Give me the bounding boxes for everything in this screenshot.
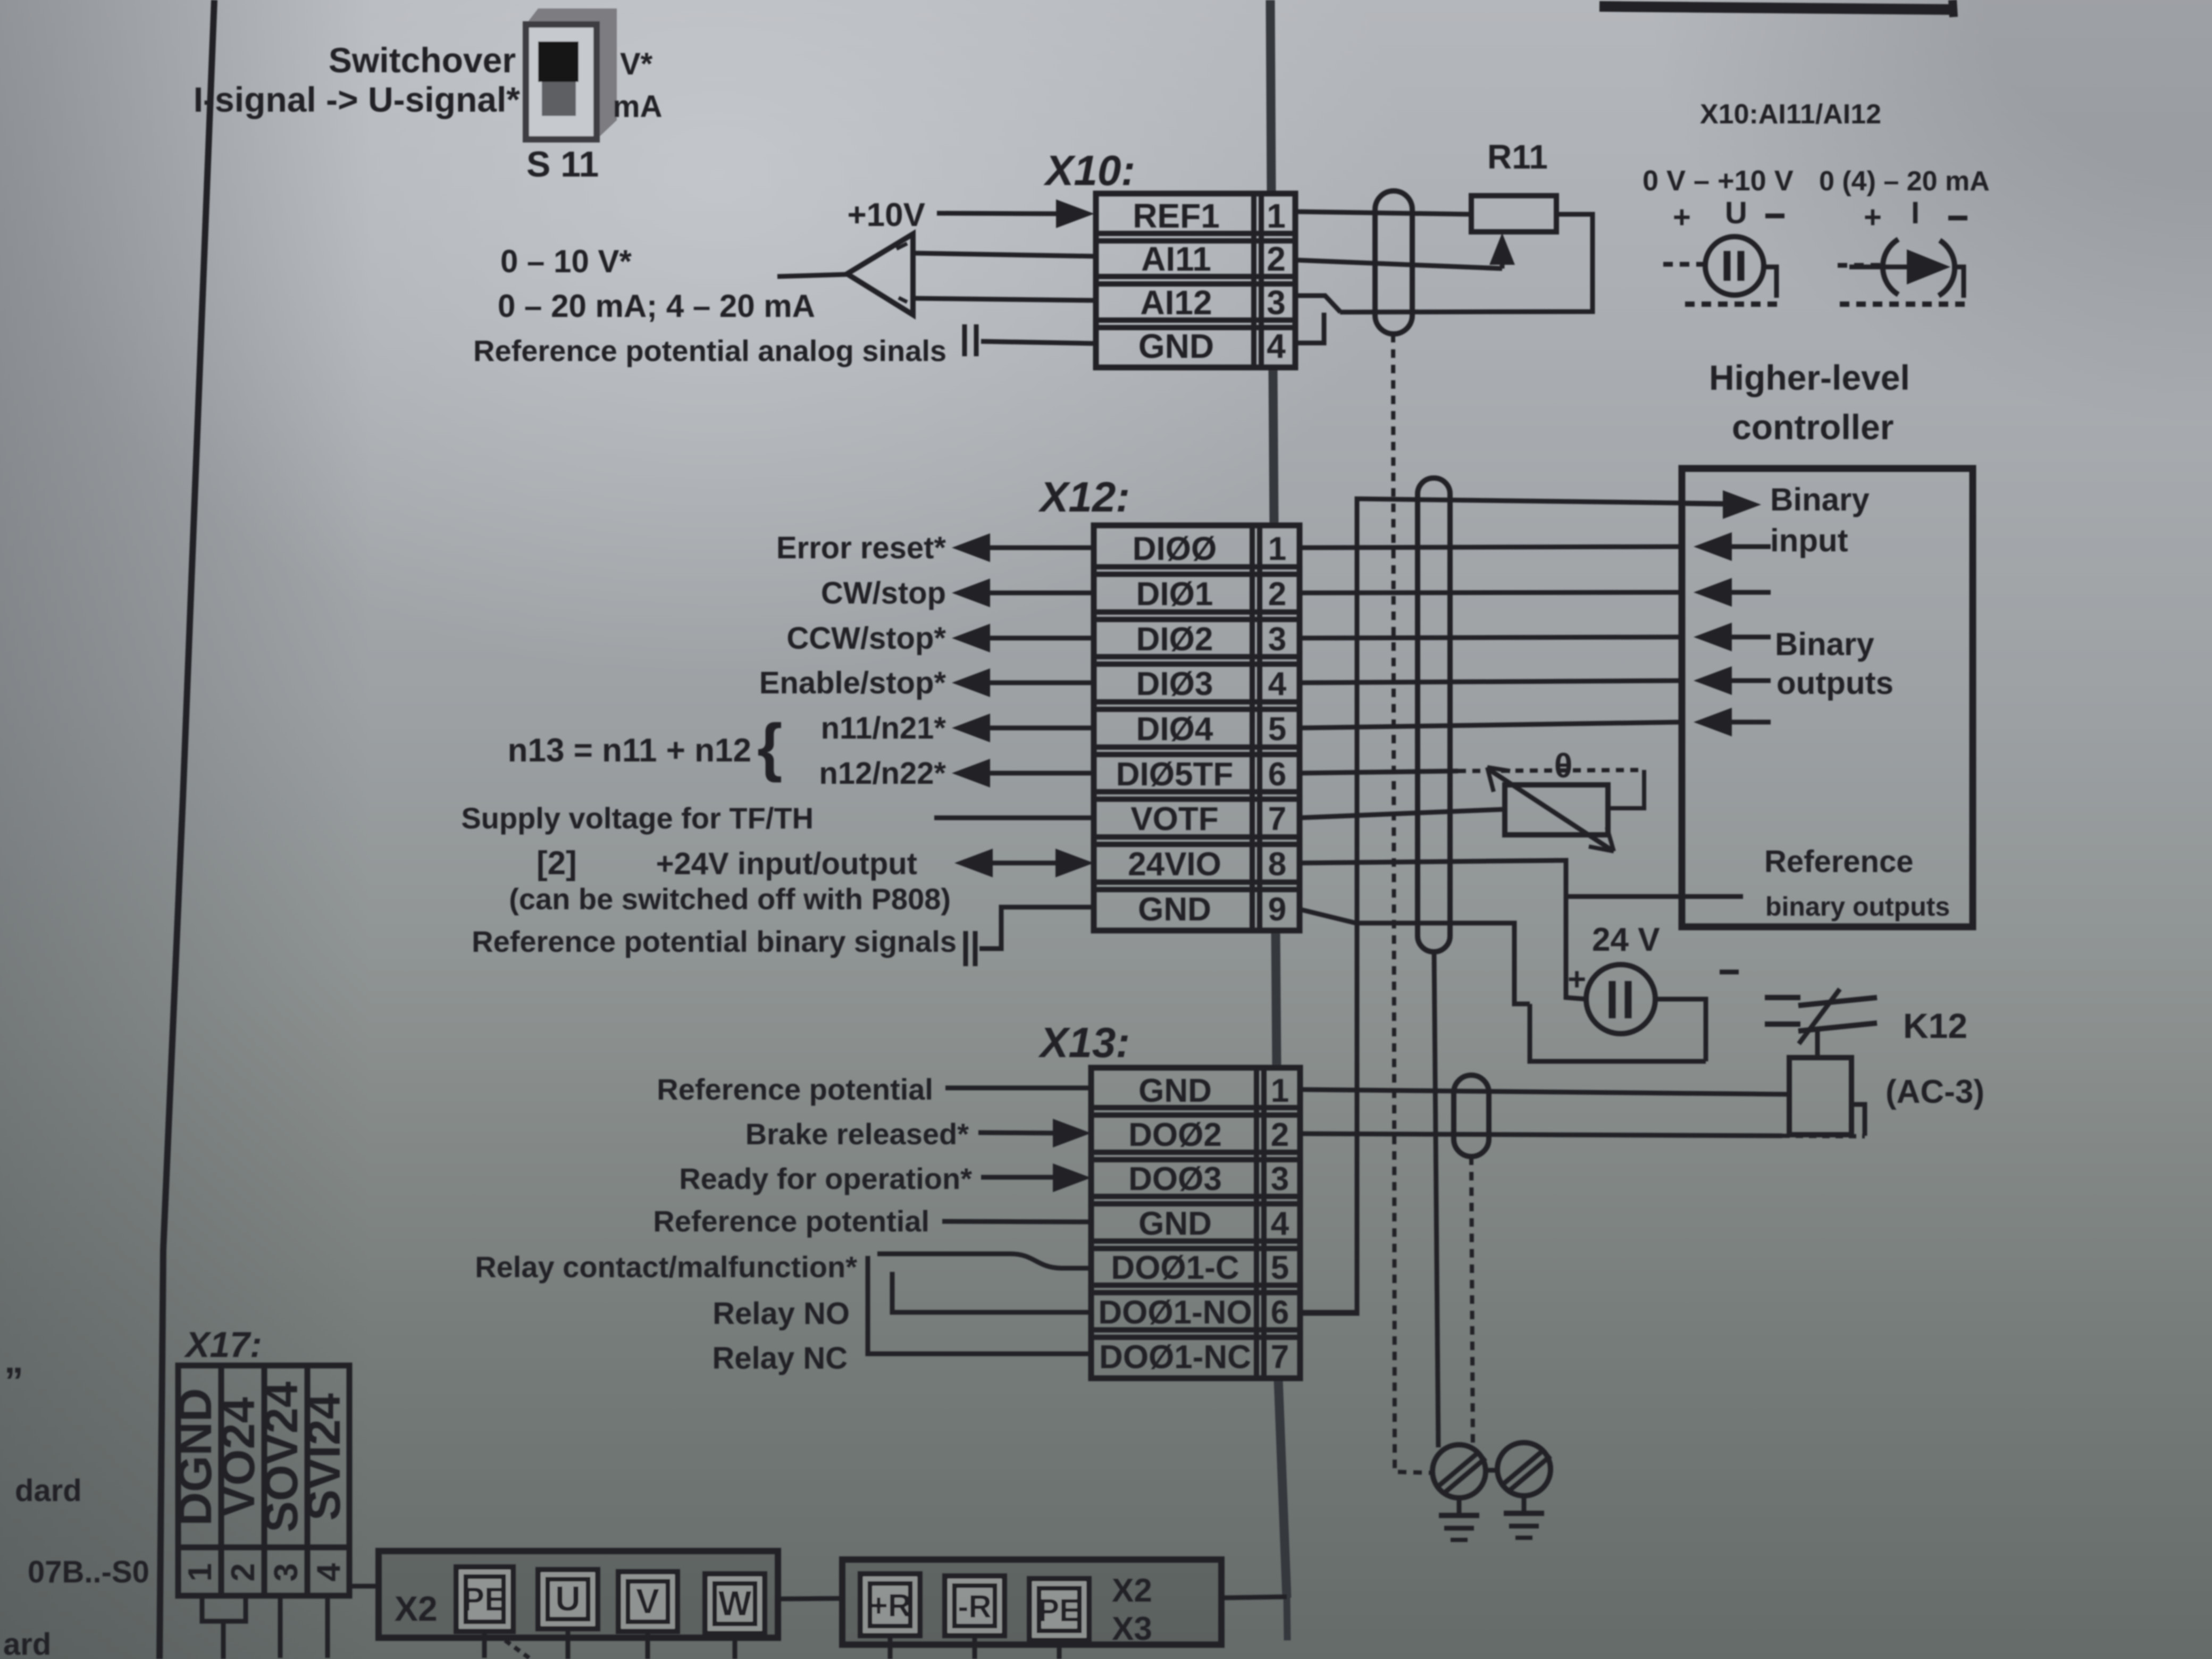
terminal U xyxy=(538,1570,598,1629)
svg-text:Reference: Reference xyxy=(1764,844,1913,879)
svg-text:ard: ard xyxy=(3,1627,51,1659)
reference potential double-bar symbol xyxy=(965,324,976,356)
X17 lower bracket wires xyxy=(202,1596,328,1659)
svg-text:GND: GND xyxy=(1138,891,1211,928)
svg-text:AI12: AI12 xyxy=(1140,283,1212,322)
wire X10:3 jog xyxy=(1295,296,1340,312)
svg-text:+: + xyxy=(1568,961,1586,997)
connector X10 title xyxy=(1043,147,1135,194)
binary output arrow 3 xyxy=(1694,623,1771,651)
svg-text:8: 8 xyxy=(1268,846,1286,883)
svg-text:7: 7 xyxy=(1268,801,1286,837)
X12 terminal 24VIO pin 8 xyxy=(1128,846,1286,883)
svg-text:mA: mA xyxy=(613,89,662,124)
arrow to Enable/stop* xyxy=(952,668,1094,697)
svg-text:Reference potential: Reference potential xyxy=(657,1073,933,1106)
label X10:AI11/AI12 xyxy=(1700,99,1881,130)
Binary input arrow xyxy=(1686,490,1761,519)
svg-text:3: 3 xyxy=(1267,283,1286,322)
24V source circle xyxy=(1586,965,1655,1034)
wire relay common to X13:5 xyxy=(877,1254,1091,1268)
partial text 07B..-S0 xyxy=(28,1555,149,1589)
svg-text:3: 3 xyxy=(1271,1161,1289,1197)
wire X17 to X2 strip xyxy=(349,1584,379,1589)
shielded cable symbol (relay pair) xyxy=(1454,1075,1489,1157)
X12 terminal VOTF pin 7 xyxy=(1130,801,1286,837)
svg-text:DOØ1-C: DOØ1-C xyxy=(1111,1250,1239,1286)
wire VOTF plain xyxy=(934,816,1094,820)
svg-text:Ready for operation*: Ready for operation* xyxy=(679,1162,972,1195)
label 0 - 10 V* xyxy=(500,244,632,279)
svg-text:DIØ2: DIØ2 xyxy=(1136,621,1213,658)
label (AC-3) xyxy=(1886,1074,1984,1110)
wire X12:9 GND to 24V loop xyxy=(1300,909,1530,1004)
svg-text:24 V: 24 V xyxy=(1592,921,1660,958)
X10 terminal AI11 pin 2 xyxy=(1141,240,1286,278)
svg-text:0 – 20 mA; 4 – 20 mA: 0 – 20 mA; 4 – 20 mA xyxy=(498,288,815,324)
double arrow 24VIO xyxy=(954,849,1094,877)
svg-text:R11: R11 xyxy=(1487,138,1548,176)
thermistor TF symbol xyxy=(1505,785,1608,835)
svg-text:X10:AI11/AI12: X10:AI11/AI12 xyxy=(1700,99,1881,130)
binary output arrow 4 xyxy=(1694,666,1771,695)
shielded cable symbol (analog) xyxy=(1375,191,1412,334)
thermistor diagonal arrow xyxy=(1487,767,1614,851)
terminal V xyxy=(618,1572,677,1631)
svg-text:1: 1 xyxy=(1268,531,1286,567)
svg-text:+R: +R xyxy=(869,1588,911,1623)
label Reference potential binary signals xyxy=(472,925,957,958)
X12 terminal GND pin 9 xyxy=(1138,891,1286,928)
svg-text:2: 2 xyxy=(225,1563,262,1581)
svg-text:PE: PE xyxy=(463,1581,507,1618)
svg-text:(can be switched off with P808: (can be switched off with P808) xyxy=(509,882,951,916)
reference potential binary double-bar xyxy=(966,931,975,966)
svg-text:Binary: Binary xyxy=(1770,482,1870,517)
svg-text:Enable/stop*: Enable/stop* xyxy=(759,666,946,700)
vertical wire binary input / relay NO xyxy=(1300,499,1723,1313)
wire X10:2 to R11 wiper xyxy=(1295,260,1502,269)
wire amplifier to AI11 xyxy=(913,253,1096,256)
svg-text:X13:: X13: xyxy=(1038,1019,1130,1066)
X12 terminal DIØ4 pin 5 xyxy=(1136,711,1287,748)
svg-text:9: 9 xyxy=(1268,891,1286,928)
wire X13:1 left xyxy=(945,1086,1091,1091)
GND X12:9 wire to double-bar xyxy=(979,907,1094,949)
svg-text:DIØ3: DIØ3 xyxy=(1136,666,1213,702)
arrow Brake released to X13:2 xyxy=(978,1119,1091,1147)
main unit boundary vertical line xyxy=(1270,0,1287,1640)
svg-text:0 V – +10 V: 0 V – +10 V xyxy=(1643,165,1794,197)
label Switchover xyxy=(329,40,516,80)
label [2] +24V input/output xyxy=(537,845,917,882)
X10 terminal GND pin 4 xyxy=(1138,327,1286,365)
X10 terminal AI12 pin 3 xyxy=(1140,283,1285,322)
label Relay contact/malfunction* xyxy=(475,1250,857,1284)
X13 terminal DOØ1-NC pin 7 xyxy=(1099,1339,1289,1376)
svg-text:3: 3 xyxy=(268,1563,305,1581)
svg-text:5: 5 xyxy=(1271,1250,1289,1286)
X13 terminal GND pin 4 xyxy=(1138,1205,1289,1242)
arrow to n12/n22* xyxy=(952,759,1094,787)
partial text quote mark xyxy=(4,1360,23,1403)
coil right bracket xyxy=(1851,1104,1865,1136)
svg-text:24VIO: 24VIO xyxy=(1128,846,1221,883)
earth ground symbol left xyxy=(1439,1498,1479,1540)
label Brake released* xyxy=(745,1117,969,1151)
label Higher-level xyxy=(1709,358,1910,397)
svg-text:V: V xyxy=(636,1581,659,1621)
wire between strips xyxy=(778,1598,842,1599)
svg-text:X12:: X12: xyxy=(1038,473,1130,521)
arrow to n11/n21* xyxy=(952,714,1094,742)
svg-text:Higher-level: Higher-level xyxy=(1709,358,1910,397)
svg-text:4: 4 xyxy=(1271,1205,1289,1242)
shield drain (binary) to ground screw xyxy=(1434,952,1438,1447)
svg-text:PE: PE xyxy=(1038,1593,1080,1628)
svg-text:DOØ3: DOØ3 xyxy=(1128,1161,1222,1197)
svg-text:Relay NC: Relay NC xyxy=(712,1341,848,1376)
wire X12:6 DIO5TF solid part xyxy=(1300,771,1458,773)
wire X12:4 to controller xyxy=(1300,681,1682,683)
svg-text:GND: GND xyxy=(1138,327,1214,365)
partial text ard xyxy=(3,1627,51,1659)
arrow to CW/stop xyxy=(952,579,1094,607)
label 0 (4) - 20 mA xyxy=(1819,166,1990,197)
label Binary outputs xyxy=(1775,626,1893,701)
label (can be switched off with P808) xyxy=(509,882,951,916)
svg-text:(AC-3): (AC-3) xyxy=(1886,1074,1984,1110)
label 0 - 20 mA; 4 - 20 mA xyxy=(498,288,815,324)
top-right box bottom edge (cut off) xyxy=(1599,0,1954,17)
wire strip2 to main boundary xyxy=(1221,1597,1287,1598)
svg-text:GND: GND xyxy=(1138,1205,1212,1242)
svg-text:07B..-S0: 07B..-S0 xyxy=(28,1555,149,1589)
svg-text:DIØ5TF: DIØ5TF xyxy=(1116,756,1233,793)
svg-text:θ: θ xyxy=(1554,747,1573,785)
wire X12:7 VOTF to thermistor xyxy=(1300,809,1505,818)
wire X12:3 to controller xyxy=(1300,637,1682,638)
X13 terminal GND pin 1 xyxy=(1138,1073,1289,1109)
higher-level controller box xyxy=(1682,468,1973,927)
svg-text:binary outputs: binary outputs xyxy=(1765,892,1950,921)
svg-text:DOØ1-NC: DOØ1-NC xyxy=(1099,1339,1251,1376)
switch S11 knob (V position, black) xyxy=(538,41,579,82)
label Relay NC xyxy=(712,1341,848,1376)
binary output arrow 1 xyxy=(1694,532,1771,561)
svg-text:-R: -R xyxy=(958,1589,991,1624)
svg-text:1: 1 xyxy=(1267,197,1286,235)
svg-text:AI11: AI11 xyxy=(1141,240,1211,278)
svg-text:+10V: +10V xyxy=(847,197,925,233)
svg-text:Switchover: Switchover xyxy=(329,40,516,80)
label Enable/stop* with arrow xyxy=(759,666,946,700)
terminal block X17 xyxy=(178,1365,349,1596)
svg-text:Relay NO: Relay NO xyxy=(713,1296,850,1331)
svg-text:VOTF: VOTF xyxy=(1130,801,1218,837)
svg-text:controller: controller xyxy=(1732,407,1893,447)
svg-text:I: I xyxy=(1911,196,1920,230)
label V* xyxy=(620,47,653,81)
wire X12:8 24VIO to controller reference xyxy=(1300,860,1686,896)
earth ground symbol right xyxy=(1504,1496,1544,1538)
svg-text:2: 2 xyxy=(1271,1117,1289,1153)
svg-text:4: 4 xyxy=(1268,666,1287,702)
svg-text:Binary: Binary xyxy=(1775,626,1874,662)
svg-text:DIØ1: DIØ1 xyxy=(1136,576,1213,613)
svg-text:DIØ4: DIØ4 xyxy=(1136,711,1213,748)
svg-text:Reference potential analog sin: Reference potential analog sinals xyxy=(473,334,946,367)
svg-text:DOØ2: DOØ2 xyxy=(1128,1117,1222,1153)
contactor K12 contact symbol xyxy=(1765,989,1877,1058)
X13 terminal DOØ1-C pin 5 xyxy=(1111,1250,1289,1286)
terminal W xyxy=(705,1574,765,1633)
wire R11 right terminal loop to X10:3/4 xyxy=(1340,214,1593,312)
terminal +R xyxy=(860,1574,920,1636)
potentiometer R11 xyxy=(1471,196,1556,232)
label n11/n21* with arrow xyxy=(821,711,946,745)
X17 terminal SVI24 pin 4 xyxy=(297,1393,350,1581)
svg-text:3: 3 xyxy=(1268,621,1286,658)
contactor K12 coil xyxy=(1789,1058,1851,1135)
svg-text:4: 4 xyxy=(311,1563,347,1581)
label 24 V xyxy=(1592,921,1660,958)
label Reference binary outputs xyxy=(1764,844,1950,921)
screw terminal right xyxy=(1497,1443,1551,1496)
svg-text:CW/stop: CW/stop xyxy=(821,576,946,610)
svg-text:Relay contact/malfunction*: Relay contact/malfunction* xyxy=(475,1250,857,1284)
partial text dard xyxy=(15,1473,82,1508)
svg-text:U: U xyxy=(1725,196,1747,230)
label Ready for operation* xyxy=(679,1162,972,1195)
svg-text:[2]: [2] xyxy=(537,845,577,882)
X13 terminal DOØ1-NO pin 6 xyxy=(1098,1294,1289,1331)
24V right lead xyxy=(1655,999,1706,1061)
terminal block X13 xyxy=(1091,1068,1300,1378)
svg-text:+: + xyxy=(1673,200,1691,234)
X12 terminal DIØ5TF pin 6 xyxy=(1116,756,1286,793)
label controller xyxy=(1732,407,1893,447)
svg-text:GND: GND xyxy=(1138,1073,1212,1109)
svg-text:Error reset*: Error reset* xyxy=(776,531,946,565)
svg-text:X3: X3 xyxy=(1112,1611,1152,1647)
wire X10:1 to potentiometer R11 xyxy=(1295,212,1471,214)
svg-text:4: 4 xyxy=(1267,327,1286,365)
X13 terminal DOØ3 pin 3 xyxy=(1128,1161,1289,1197)
arrow Ready for operation to X13:3 xyxy=(981,1163,1091,1192)
label I-signal -> U-signal* xyxy=(194,80,521,119)
label theta xyxy=(1554,747,1573,785)
power strip X2/X3 (+R -R PE) xyxy=(842,1560,1221,1645)
terminal block X12 xyxy=(1094,525,1300,931)
label Reference potential analog sinals xyxy=(473,334,946,367)
connector X12 title xyxy=(1038,473,1130,521)
R11 wiper arrow xyxy=(1489,233,1515,269)
shield drain dashed line down to ground screw xyxy=(1393,334,1432,1473)
svg-text:V*: V* xyxy=(620,47,653,81)
connector between screws xyxy=(1486,1468,1498,1473)
svg-text:dard: dard xyxy=(15,1473,82,1508)
binary output arrow 2 xyxy=(1694,578,1771,607)
svg-text:DIØØ: DIØØ xyxy=(1133,531,1217,567)
label Reference potential (X13:4) xyxy=(653,1204,929,1238)
wire X13:2 DO02 to K12 coil return xyxy=(1300,1134,1865,1136)
terminal -R xyxy=(945,1576,1004,1636)
voltage source U symbol xyxy=(1663,196,1784,304)
X10 terminal REF1 pin 1 xyxy=(1133,197,1286,235)
label X2 (strip) xyxy=(395,1589,438,1628)
svg-text:I-signal -> U-signal*: I-signal -> U-signal* xyxy=(194,80,521,119)
label 0 V - +10 V xyxy=(1643,165,1794,197)
power strip X2 (PE U V W) xyxy=(379,1551,778,1638)
svg-text:n11/n21*: n11/n21* xyxy=(821,711,946,745)
svg-text:Reference potential: Reference potential xyxy=(653,1204,929,1238)
wire from amplifier tip left xyxy=(777,274,847,276)
svg-text:2: 2 xyxy=(1267,240,1286,278)
terminal block X10 xyxy=(1096,194,1295,367)
stubs below X2 strip xyxy=(484,1629,735,1659)
24V loop rectangle xyxy=(1530,1004,1706,1061)
label Reference potential (X13:1) xyxy=(657,1073,933,1106)
wire 24VIO down to 24V source + xyxy=(1566,896,1586,999)
switch S11 body xyxy=(526,24,597,139)
svg-text:1: 1 xyxy=(1271,1073,1289,1109)
label - (24V) xyxy=(1720,970,1739,975)
svg-text:n13 = n11 + n12: n13 = n11 + n12 xyxy=(508,732,751,769)
wire X13:6 to vertical xyxy=(1300,1310,1357,1315)
label n13 = n11 + n12 { xyxy=(508,710,783,783)
wire X12:5 to controller xyxy=(1300,722,1682,728)
relay bracket outer to X13:7 xyxy=(868,1256,1091,1354)
label K12 xyxy=(1903,1006,1967,1045)
label Supply voltage for TF/TH xyxy=(461,801,814,835)
screw terminal left xyxy=(1432,1445,1486,1498)
svg-text:0 (4) – 20 mA: 0 (4) – 20 mA xyxy=(1819,166,1990,197)
svg-text:SVI24: SVI24 xyxy=(297,1393,350,1521)
svg-text:6: 6 xyxy=(1271,1294,1289,1331)
svg-text:0 – 10 V*: 0 – 10 V* xyxy=(500,244,632,279)
X17 terminal DGND pin 1 xyxy=(169,1388,221,1581)
connector X13 title xyxy=(1038,1019,1130,1066)
svg-text:2: 2 xyxy=(1268,576,1286,613)
svg-text:Supply voltage for TF/TH: Supply voltage for TF/TH xyxy=(461,801,814,835)
label + (24V) xyxy=(1568,961,1586,997)
label R11 xyxy=(1487,138,1548,176)
svg-text:+24V input/output: +24V input/output xyxy=(656,847,917,881)
svg-text:5: 5 xyxy=(1268,711,1286,748)
svg-text:1: 1 xyxy=(182,1563,219,1581)
svg-text:”: ” xyxy=(4,1360,23,1403)
terminal PE (X3) xyxy=(1029,1579,1089,1640)
left page border line xyxy=(160,0,214,1659)
svg-text:DOØ1-NO: DOØ1-NO xyxy=(1098,1294,1252,1331)
wire X12:1 to controller xyxy=(1300,547,1682,548)
wire amplifier to AI12 xyxy=(913,298,1096,300)
svg-text:X17:: X17: xyxy=(183,1325,262,1365)
label n12/n22* with arrow xyxy=(819,756,946,791)
shielded cable symbol (binary bundle) xyxy=(1418,478,1450,952)
X13 terminal DOØ2 pin 2 xyxy=(1128,1117,1289,1153)
X17 terminal VO24 pin 2 xyxy=(212,1397,264,1581)
label Error reset* with arrow xyxy=(776,531,946,565)
svg-text:X10:: X10: xyxy=(1043,147,1135,194)
switch S11 body shadow xyxy=(526,9,617,139)
wire X10:4 jog xyxy=(1295,313,1324,343)
X17 terminal SOV24 pin 3 xyxy=(255,1381,307,1581)
wire +10V to X10:1 with arrow xyxy=(937,199,1094,228)
svg-text:6: 6 xyxy=(1268,756,1286,793)
current source I symbol xyxy=(1838,196,1967,304)
svg-text:Brake released*: Brake released* xyxy=(745,1117,969,1151)
svg-text:n12/n22*: n12/n22* xyxy=(819,756,946,791)
arrow to CCW/stop* xyxy=(952,624,1094,652)
label S 11 xyxy=(526,144,599,185)
wire X13:4 left xyxy=(942,1221,1091,1222)
svg-text:{: { xyxy=(757,710,782,783)
wire X12:6 dashed TF line xyxy=(1458,770,1644,808)
X12 terminal DIØØ pin 1 xyxy=(1133,531,1286,567)
reference binary outputs wire inside box xyxy=(1686,894,1743,899)
label X2 X3 stacked xyxy=(1112,1572,1152,1647)
X12 terminal DIØ2 pin 3 xyxy=(1136,621,1287,658)
svg-text:7: 7 xyxy=(1271,1339,1289,1376)
connector X17 title xyxy=(183,1325,262,1365)
svg-text:W: W xyxy=(718,1583,752,1623)
terminal PE (X2) xyxy=(456,1567,513,1631)
label mA xyxy=(613,89,662,124)
label Relay NO xyxy=(713,1296,850,1331)
wire X12:2 to controller xyxy=(1300,592,1682,593)
svg-text:X2: X2 xyxy=(395,1589,438,1628)
wire X13:1 GND to K12 coil xyxy=(1300,1090,1789,1094)
svg-text:REF1: REF1 xyxy=(1133,197,1220,235)
shield drain (relay pair) to ground screw xyxy=(1471,1157,1473,1450)
X12 terminal DIØ3 pin 4 xyxy=(1136,666,1287,702)
svg-text:outputs: outputs xyxy=(1777,665,1893,701)
label CW/stop with arrow xyxy=(821,576,946,610)
arrow to Error reset* xyxy=(952,533,1094,562)
svg-text:K12: K12 xyxy=(1903,1006,1967,1045)
X12 terminal DIØ1 pin 2 xyxy=(1136,576,1287,613)
wire double-bar to X10:GND xyxy=(981,341,1096,343)
svg-text:U: U xyxy=(555,1579,581,1618)
label CCW/stop* with arrow xyxy=(786,621,946,656)
svg-text:CCW/stop*: CCW/stop* xyxy=(786,621,946,656)
label +10V xyxy=(847,197,925,233)
binary output arrow 5 xyxy=(1694,708,1771,736)
svg-text:X2: X2 xyxy=(1112,1572,1152,1609)
svg-text:S 11: S 11 xyxy=(526,144,599,185)
label Binary input xyxy=(1770,482,1870,558)
relay bracket inner to X13:6 xyxy=(892,1272,1091,1312)
op-amp style setpoint amplifier triangle xyxy=(847,234,913,315)
stubs below X3 strip xyxy=(890,1636,1059,1659)
svg-text:input: input xyxy=(1770,523,1848,558)
svg-text:+: + xyxy=(1864,200,1882,234)
switch S11 knob slot lower part xyxy=(542,82,576,116)
svg-text:Reference potential binary sig: Reference potential binary signals xyxy=(472,925,957,958)
